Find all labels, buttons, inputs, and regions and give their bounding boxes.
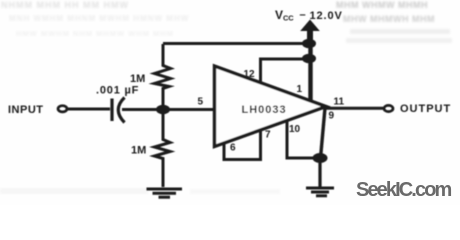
op-amp U1 LH0033 triangle (215, 66, 327, 147)
pin 11 output wire (326, 107, 383, 110)
pin 1 wire (Vcc column down to top edge) (308, 44, 312, 100)
svg-text:MNH WMHM MHNM MWHM HMNW MHW: MNH WMHM MHNM MWHM HMNW MHW (9, 14, 189, 23)
svg-text:.001 µF: .001 µF (96, 85, 139, 97)
junction dot on Vcc column (pin 12) (302, 54, 316, 63)
svg-text:10: 10 (289, 124, 301, 135)
svg-text:NHMM MHM HH MM HMW: NHMM MHM HH MM HMW (1, 0, 129, 10)
resistor R2 1M (lower) (155, 114, 171, 187)
wire node A to pin 5 (163, 108, 213, 111)
svg-text:1: 1 (297, 84, 303, 95)
node A junction dot (156, 105, 170, 114)
svg-text:MHM WHMW MHMH: MHM WHMW MHMH (336, 0, 428, 10)
pin 10 wire (287, 121, 319, 158)
input terminal (58, 106, 67, 112)
svg-text:SeekIC.com: SeekIC.com (356, 179, 452, 201)
wire capacitor to node A (122, 108, 162, 111)
svg-text:5: 5 (198, 97, 204, 108)
svg-text:MHW MHMWH MHM: MHW MHMWH MHM (343, 14, 435, 24)
wire input terminal to capacitor (68, 108, 111, 111)
pin 12 wire (261, 59, 310, 84)
svg-text:11: 11 (334, 97, 345, 108)
output terminal (384, 105, 393, 111)
svg-text:7: 7 (265, 130, 271, 141)
svg-text:9: 9 (329, 111, 335, 122)
pin 9 wire (apex down to ground) (321, 108, 326, 158)
resistor R1 1M (upper) (155, 44, 171, 105)
ground G1 (147, 189, 183, 197)
junction dot on Vcc column (feedback) (302, 39, 316, 48)
svg-text:1M: 1M (131, 145, 146, 157)
svg-text:12: 12 (244, 69, 256, 80)
Vcc arrow shaft (307, 29, 313, 44)
capacitor C1 .001uF plate 1 (110, 99, 113, 122)
svg-text:HMW MWHM NHM MHMW WHM MHM: HMW MWHM NHM MHMW WHM MHM (16, 29, 174, 38)
junction dot pin9/pin10 (313, 153, 328, 163)
pin 6 to pin 7 loop wire (224, 130, 261, 160)
capacitor C1 plate 2 (curved) (118, 98, 124, 123)
ground G2 (318, 158, 321, 187)
svg-text:1M: 1M (130, 73, 145, 85)
wire feedback: R1 top to Vcc column (163, 42, 310, 45)
svg-text:VCC –12.0V: VCC –12.0V (275, 8, 343, 23)
svg-text:6: 6 (230, 143, 236, 154)
Vcc arrowhead (300, 20, 320, 32)
svg-text:LH0033: LH0033 (242, 104, 287, 116)
svg-text:INPUT: INPUT (8, 104, 44, 116)
ghost scan artifacts top rows (decorative) (0, 0, 452, 194)
svg-text:OUTPUT: OUTPUT (400, 103, 451, 115)
